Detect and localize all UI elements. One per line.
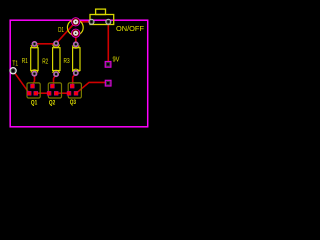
silk bump arc [53, 70, 60, 73]
transistor Q3 outline [68, 83, 81, 98]
R3 pad bottom [73, 71, 78, 76]
switch SW1 body [90, 15, 114, 25]
Q1 base pad [31, 84, 35, 88]
svg-text:Q2: Q2 [49, 100, 56, 107]
svg-text:ON/OFF: ON/OFF [116, 24, 144, 33]
wire Q3.c to battery pad [76, 82, 105, 93]
svg-text:Q3: Q3 [70, 99, 77, 106]
battery pad negative [105, 80, 111, 86]
wire D1.top to SW.left [76, 21, 92, 23]
wire D1.bottom to R3.top [75, 33, 77, 44]
LED D1 outline circle [67, 20, 83, 36]
Q1 collector pad [34, 91, 38, 95]
wire Q1.c to Q2.e [37, 92, 50, 94]
transistor Q1 outline [27, 83, 40, 98]
svg-text:9V: 9V [113, 55, 120, 64]
Q2 emitter pad [47, 91, 51, 95]
wire R3.bot to Q3.base [73, 73, 76, 85]
switch SW1 actuator tab [96, 9, 106, 14]
silk bump arc [72, 46, 79, 49]
transistor Q2 outline [48, 83, 61, 98]
wire R1.top to R2.top [35, 43, 57, 45]
svg-text:R1: R1 [22, 56, 28, 65]
silk bump arc [31, 70, 38, 73]
Q3 base pad [70, 84, 74, 88]
D1 pad cathode [72, 29, 80, 37]
R1 pad top [32, 41, 37, 46]
Q3 collector pad [74, 91, 78, 95]
switch pad left [89, 19, 94, 24]
R3 pad top [73, 42, 78, 47]
resistor R3 body [73, 48, 80, 71]
wire Q2.c to Q3.e [57, 92, 70, 94]
wire R2.top to D1.top [56, 22, 76, 44]
silk bump arc [53, 45, 60, 48]
D1 pad anode [72, 18, 80, 26]
svg-text:Q1: Q1 [31, 100, 38, 107]
Q1 emitter pad [27, 91, 31, 95]
wire R2.bot to Q2.base [54, 74, 57, 85]
battery pad positive (9V) [105, 62, 111, 68]
wire SW.right to 9V pad [107, 22, 109, 62]
svg-text:R2: R2 [42, 57, 48, 66]
resistor R1 body [31, 48, 38, 71]
switch pad right [106, 19, 111, 24]
R1 pad bottom [32, 71, 37, 76]
Q3 emitter pad [67, 91, 71, 95]
R2 pad bottom [54, 72, 59, 77]
board outline [10, 20, 148, 127]
Q2 collector pad [54, 91, 58, 95]
R2 pad top [54, 41, 59, 46]
svg-text:R3: R3 [64, 56, 70, 65]
wire R1.bot to Q1.base [33, 74, 35, 85]
svg-text:T1: T1 [12, 58, 18, 67]
silk bump arc [72, 69, 79, 72]
silk bump arc [31, 45, 38, 48]
resistor R2 body [53, 48, 60, 71]
wire T1 to Q1.e [13, 71, 29, 94]
svg-text:D1: D1 [58, 25, 64, 34]
Q2 base pad [50, 84, 54, 88]
test point T1 pad [10, 68, 16, 74]
